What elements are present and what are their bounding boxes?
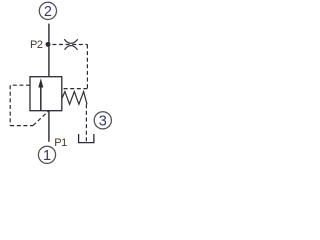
svg-text:2: 2 (44, 4, 52, 20)
svg-text:1: 1 (43, 148, 51, 164)
svg-text:P1: P1 (54, 137, 67, 149)
svg-text:3: 3 (99, 114, 107, 130)
svg-text:P2: P2 (30, 39, 43, 51)
